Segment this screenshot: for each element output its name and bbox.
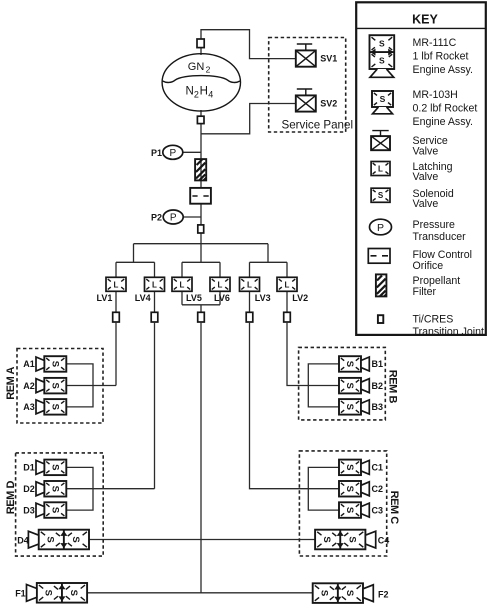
key symbol pressure transducer (370, 219, 392, 235)
REM B dashed box (299, 347, 386, 420)
key symbol propellant filter (376, 274, 387, 296)
thruster A1 (23, 356, 66, 372)
svg-text:Valve: Valve (413, 198, 439, 210)
svg-text:LV4: LV4 (135, 293, 151, 303)
thruster D4 (dual) (17, 530, 89, 550)
latching valve LV1 (106, 277, 126, 291)
svg-text:P: P (377, 222, 384, 234)
svg-text:A2: A2 (23, 381, 35, 391)
svg-text:Engine Assy.: Engine Assy. (413, 116, 473, 128)
wire tank bottom through filter and orifice to manifold (200, 110, 202, 244)
svg-text:H: H (200, 86, 208, 98)
svg-text:F1: F1 (15, 588, 26, 598)
thruster F1 (dual) (15, 583, 87, 603)
svg-text:S: S (380, 94, 386, 104)
wire tank top riser to service panel SV1 (201, 30, 296, 59)
service panel dashed box (269, 38, 346, 133)
svg-text:SV1: SV1 (320, 54, 337, 64)
wire tank top to joint (200, 39, 202, 55)
wire F1 to F2 cross line (88, 592, 313, 594)
svg-text:D3: D3 (23, 505, 35, 515)
wire LV4 drop to REM D (154, 322, 156, 489)
svg-text:MR-103H: MR-103H (413, 89, 458, 101)
wire LV1 drop to REM A (115, 322, 117, 386)
svg-text:Transducer: Transducer (413, 231, 467, 243)
latching valve LV3 (240, 277, 260, 291)
svg-text:Valve: Valve (413, 146, 439, 158)
REM D dashed box (16, 453, 104, 556)
key symbol MR-111C dual engine (370, 35, 395, 77)
svg-text:KEY: KEY (412, 12, 438, 26)
svg-text:2: 2 (206, 65, 211, 75)
latching valve LV6 (210, 277, 230, 291)
svg-text:Propellant: Propellant (413, 275, 461, 287)
svg-text:B1: B1 (372, 359, 384, 369)
svg-text:C1: C1 (372, 463, 384, 473)
key symbol latching valve (371, 162, 390, 176)
svg-text:Orifice: Orifice (413, 260, 444, 272)
svg-text:A3: A3 (23, 402, 35, 412)
wire LV5/LV6 collector bracket (182, 291, 220, 312)
svg-text:N: N (186, 86, 194, 98)
wire manifold (134, 243, 269, 245)
thruster B2 (339, 378, 383, 394)
latching valve LV2 (277, 277, 297, 291)
thruster C1 (339, 460, 383, 476)
svg-text:Pressure: Pressure (413, 219, 455, 231)
latching valve LV5 (172, 277, 192, 291)
wire D1/D3 collector (66, 467, 154, 510)
KEY PANEL (356, 2, 486, 335)
key symbol flow control orifice (368, 249, 390, 264)
svg-text:LV5: LV5 (186, 293, 202, 303)
svg-text:0.2 lbf Rocket: 0.2 lbf Rocket (413, 102, 478, 114)
svg-text:2: 2 (194, 89, 199, 99)
svg-text:REM C: REM C (388, 491, 400, 525)
svg-text:C4: C4 (378, 535, 390, 545)
svg-text:S: S (379, 39, 385, 49)
wire right riser and pair bar LV3/LV2 (250, 244, 288, 278)
thruster B3 (339, 399, 383, 415)
wire B1/B3 collector (308, 364, 339, 407)
wire A1/A3 collector (66, 364, 116, 407)
thruster D3 (23, 502, 66, 518)
pressure transducer P1 (151, 145, 183, 159)
thruster A3 (23, 399, 66, 415)
svg-text:LV3: LV3 (255, 293, 271, 303)
wire LV2 drop and elbow to REM B (287, 322, 339, 386)
svg-text:B3: B3 (372, 402, 384, 412)
svg-text:L: L (378, 165, 383, 174)
wire stubs below LV1 LV4 LV3 LV2 (116, 291, 287, 312)
wire center drop to F manifold (200, 322, 202, 593)
key symbol MR-103H engine (372, 91, 393, 114)
flow control orifice (190, 188, 211, 204)
svg-text:S: S (378, 191, 384, 200)
thruster C4 (dual) (315, 530, 389, 550)
svg-text:Valve: Valve (413, 171, 439, 183)
svg-text:P1: P1 (151, 148, 162, 158)
wire LV3 drop and elbow to REM C (250, 322, 340, 489)
svg-text:LV1: LV1 (97, 293, 113, 303)
wire C1/C3 collector (308, 467, 339, 510)
wire D4 to C4 cross line (89, 539, 315, 541)
svg-text:Service Panel: Service Panel (282, 119, 354, 132)
wire center riser and pair bar LV5/LV6 (182, 244, 220, 278)
tank GN2/N2H4 (162, 54, 240, 111)
svg-text:GN: GN (188, 61, 205, 73)
thruster B1 (339, 356, 383, 372)
svg-text:C3: C3 (372, 505, 384, 515)
Ti/CRES joint below P2 (198, 225, 204, 233)
svg-text:F2: F2 (378, 589, 389, 599)
pressure transducer P2 (151, 210, 183, 224)
REM A dashed box (17, 349, 103, 424)
service valve SV1 (296, 44, 338, 67)
thruster F2 (dual) (313, 583, 389, 603)
Ti/CRES joints below valve row (113, 312, 120, 322)
svg-text:Ti/CRES: Ti/CRES (413, 314, 454, 326)
svg-text:P: P (169, 148, 176, 159)
wire left riser and pair bar LV1/LV4 (116, 244, 155, 278)
svg-text:D4: D4 (17, 535, 29, 545)
svg-text:S: S (379, 56, 385, 66)
svg-text:P: P (170, 213, 177, 224)
propellant filter (195, 159, 206, 180)
svg-text:Engine Assy.: Engine Assy. (413, 64, 473, 76)
svg-text:D2: D2 (23, 484, 35, 494)
Ti/CRES joint below tank (197, 116, 204, 123)
service valve SV2 (296, 89, 338, 112)
thruster A2 (23, 378, 66, 394)
wire P2 stub (183, 216, 202, 218)
svg-text:Flow Control: Flow Control (413, 249, 472, 261)
svg-text:REM B: REM B (387, 370, 399, 404)
svg-text:LV2: LV2 (292, 293, 308, 303)
svg-text:P2: P2 (151, 213, 162, 223)
wire P1 stub (183, 151, 202, 153)
svg-text:Transition Joint: Transition Joint (413, 326, 484, 338)
thruster D1 (23, 460, 66, 476)
svg-text:D1: D1 (23, 463, 35, 473)
svg-text:1 lbf Rocket: 1 lbf Rocket (413, 50, 469, 62)
svg-text:SV2: SV2 (320, 99, 337, 109)
wire branch to SV2 (201, 104, 296, 134)
Ti/CRES joint above tank (197, 39, 204, 48)
svg-text:C2: C2 (372, 484, 384, 494)
thruster C3 (339, 502, 383, 518)
svg-text:REM D: REM D (5, 481, 17, 515)
thruster D2 (23, 481, 66, 497)
thruster C2 (339, 481, 383, 497)
svg-text:B2: B2 (372, 381, 384, 391)
svg-text:REM A: REM A (5, 367, 17, 400)
svg-text:LV6: LV6 (214, 293, 230, 303)
key symbol service valve (371, 131, 390, 151)
svg-text:MR-111C: MR-111C (413, 37, 457, 49)
svg-text:Filter: Filter (413, 286, 437, 298)
svg-text:A1: A1 (23, 359, 35, 369)
REM C dashed box (299, 451, 386, 556)
key symbol Ti/CRES joint (378, 315, 383, 323)
svg-text:4: 4 (208, 89, 213, 99)
key symbol solenoid valve (371, 188, 390, 202)
latching valve LV4 (145, 277, 165, 291)
